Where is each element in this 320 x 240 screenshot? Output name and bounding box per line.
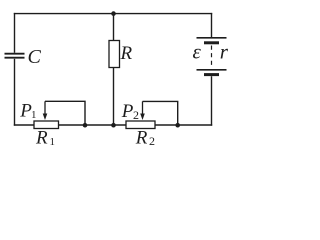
rheostat R2 body xyxy=(126,121,155,129)
wire right lower xyxy=(211,76,213,126)
svg-text:1: 1 xyxy=(31,109,37,121)
svg-text:R: R xyxy=(135,128,148,149)
wire top xyxy=(14,13,212,15)
label r xyxy=(220,40,229,64)
svg-text:ε: ε xyxy=(193,40,202,64)
wire left upper xyxy=(14,13,16,53)
svg-text:1: 1 xyxy=(50,136,56,148)
resistor R xyxy=(109,41,120,68)
wiper arrow P2 xyxy=(140,101,145,120)
rheostat R1 body xyxy=(34,121,59,129)
svg-text:R: R xyxy=(35,128,48,149)
wire bottom segment 3 xyxy=(155,124,212,126)
label R1 xyxy=(35,128,55,149)
wiper arrow P1 xyxy=(43,101,48,120)
svg-text:r: r xyxy=(220,40,229,64)
svg-text:2: 2 xyxy=(133,108,139,122)
battery cell 2 long plate xyxy=(197,69,227,71)
node junction D xyxy=(175,123,180,128)
wire middle lower xyxy=(113,68,115,126)
node junction A xyxy=(83,123,88,128)
svg-text:P: P xyxy=(121,101,134,122)
battery cell 1 long plate xyxy=(197,37,227,39)
label epsilon xyxy=(193,40,202,64)
wire wiper loop P2 xyxy=(143,101,178,125)
wire wiper loop P1 xyxy=(45,101,85,125)
node junction B xyxy=(111,123,116,128)
battery cell 2 short plate xyxy=(204,73,219,76)
node top junction xyxy=(111,11,116,16)
label R2 xyxy=(135,128,155,149)
wire bottom segment 1 xyxy=(14,124,35,126)
svg-text:R: R xyxy=(120,43,133,64)
wire left lower xyxy=(14,59,16,126)
wire bottom segment 2 xyxy=(59,124,127,126)
svg-text:2: 2 xyxy=(149,134,155,148)
svg-text:C: C xyxy=(28,46,42,68)
label C xyxy=(28,46,42,68)
wire middle upper xyxy=(113,14,115,41)
battery dashed link xyxy=(211,46,213,68)
wire right upper xyxy=(211,13,213,37)
label P1 xyxy=(19,101,36,122)
label R xyxy=(120,43,133,64)
battery cell 1 short plate xyxy=(204,41,219,44)
capacitor C xyxy=(5,54,25,58)
label P2 xyxy=(121,101,139,122)
